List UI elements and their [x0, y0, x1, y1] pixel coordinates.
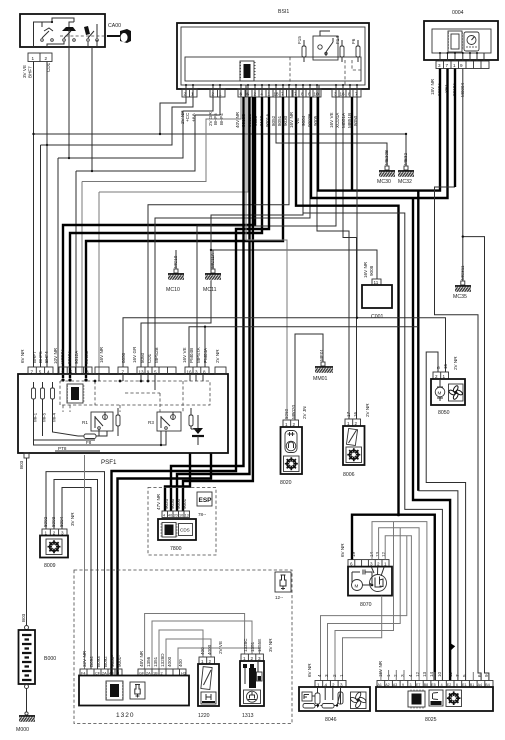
1313 spark icon — [244, 690, 261, 704]
1220 sensor icon — [201, 667, 212, 690]
wire PSF1 pins 16 and 8 feed — [189, 326, 418, 368]
svg-text:8: 8 — [348, 92, 351, 97]
svg-text:7: 7 — [446, 63, 449, 68]
svg-text:3V NR: 3V NR — [70, 512, 75, 526]
svg-text:2: 2 — [45, 56, 48, 61]
wire B03 battery positive — [26, 458, 28, 625]
wire 8045 loop 2 — [328, 528, 401, 681]
ECU 7800 dashed enclosure — [148, 488, 216, 556]
wire BHF4 switch branch — [76, 47, 220, 374]
BSI1 fuse F6 — [351, 38, 360, 62]
svg-text:9012A: 9012A — [74, 350, 79, 364]
PSF1 component right fuse — [189, 408, 193, 429]
PSF1 connector strip group 16V GR — [132, 346, 176, 375]
svg-text:9001: 9001 — [182, 498, 187, 509]
PSF1 connector cell 2V — [215, 349, 226, 375]
wire MC10 stem — [175, 250, 177, 269]
svg-text:1351: 1351 — [153, 656, 158, 667]
7800 ESP logo — [197, 492, 212, 506]
8025 IC icon — [408, 690, 425, 709]
svg-text:2V NR: 2V NR — [215, 349, 220, 363]
svg-text:6: 6 — [308, 92, 311, 97]
svg-text:8025: 8025 — [425, 717, 437, 723]
wire MC35 branch from 0004 — [462, 69, 489, 681]
svg-text:400: 400 — [200, 647, 205, 655]
svg-text:1313: 1313 — [242, 713, 254, 719]
7800 connector — [156, 493, 190, 517]
motor unit 8070 — [340, 543, 392, 608]
PSF1 internal wires — [34, 374, 204, 446]
PSF1 relay R3 — [148, 412, 181, 431]
BSI1 internal IC — [239, 61, 255, 81]
svg-text:B03: B03 — [21, 613, 26, 622]
AC control unit 8025 — [376, 660, 493, 723]
svg-text:5: 5 — [154, 370, 157, 375]
wire thick PSF1 out to 1320 — [118, 453, 212, 675]
svg-text:2: 2 — [332, 674, 337, 677]
svg-text:8: 8 — [240, 92, 243, 97]
1220 gearbox icon — [201, 692, 216, 704]
svg-text:13: 13 — [139, 370, 145, 375]
svg-text:8: 8 — [301, 92, 304, 97]
svg-text:M: M — [355, 584, 359, 589]
wire MR5C thick BSI1 to PSF1 — [84, 97, 283, 382]
svg-text:8070: 8070 — [360, 602, 372, 608]
svg-text:CDS: CDS — [180, 528, 190, 533]
svg-text:BHF4: BHF4 — [44, 351, 49, 363]
wire 9013A thick BSI1 to PSF1 — [61, 97, 255, 382]
wire thick 7800 feed 4 — [183, 97, 253, 511]
8006 sensor icon — [346, 428, 357, 445]
ground MC11 — [203, 252, 223, 293]
wire CD1 link BSI to PSF1 pin9 — [148, 97, 289, 367]
svg-text:8009: 8009 — [44, 563, 56, 569]
svg-text:4: 4 — [408, 674, 413, 677]
svg-text:9: 9 — [460, 63, 463, 68]
wire 32V NR to 1320 — [84, 455, 86, 669]
svg-text:48V NR: 48V NR — [139, 650, 144, 667]
wire 8020 pin2 to MM01 — [295, 334, 323, 420]
label 3V VE BHF7 — [22, 65, 33, 78]
wire 8009 pin3 to 1320 — [62, 488, 91, 670]
svg-text:3: 3 — [195, 370, 198, 375]
PSF1 PT8 tag — [55, 446, 100, 451]
wire 8070 pin12 to 8025 — [385, 536, 411, 681]
wire thick trunk C from 0004 — [311, 69, 448, 199]
svg-text:32V NR: 32V NR — [82, 650, 87, 667]
svg-text:R1: R1 — [82, 420, 88, 425]
BSI1 relay — [313, 31, 338, 60]
8070 capacitor — [352, 570, 372, 584]
bulb unit 8020 — [280, 405, 307, 486]
svg-text:40: 40 — [168, 514, 172, 518]
wire BHF7 switch branch — [58, 47, 213, 374]
svg-text:F14: F14 — [335, 36, 340, 44]
ground MC35 — [453, 265, 473, 300]
svg-text:ESP: ESP — [199, 497, 213, 504]
svg-text:4: 4 — [163, 514, 165, 518]
resistor unit 8006 — [343, 403, 370, 478]
svg-text:16: 16 — [353, 411, 358, 417]
svg-text:13: 13 — [185, 514, 189, 518]
wire thick trunk A 9004 — [296, 97, 399, 515]
ignition switch CA00 — [20, 14, 121, 47]
svg-text:1: 1 — [453, 63, 456, 68]
PSF1 fuse MF5 — [41, 382, 47, 422]
PSF1 B03 stud — [19, 453, 29, 469]
svg-text:4: 4 — [47, 370, 50, 375]
svg-text:2V JN: 2V JN — [302, 406, 307, 419]
1320 injector icon — [130, 682, 145, 699]
8045 display icon — [302, 692, 315, 701]
PSF1 internal IC — [67, 384, 85, 403]
svg-text:16: 16 — [187, 370, 193, 375]
BSI1 pin dots — [185, 84, 358, 86]
PSF1 connector strip group 16V VE — [182, 346, 209, 374]
8045 fan icon — [350, 691, 367, 708]
svg-text:4000: 4000 — [167, 656, 172, 667]
PSF1 connector cell 16V — [95, 346, 109, 374]
svg-text:16V GR: 16V GR — [132, 346, 137, 363]
fan unit 8050 — [431, 356, 465, 416]
8050 motor icon — [435, 379, 445, 401]
wire 8045 loop 1 — [321, 536, 407, 681]
8020 bulb icon — [285, 431, 297, 453]
PSF1 internal ground — [192, 415, 204, 436]
svg-text:MPS2B: MPS2B — [154, 347, 159, 363]
svg-text:MC10: MC10 — [166, 287, 180, 293]
injector icon 12 — [275, 572, 291, 600]
svg-text:BHF7: BHF7 — [28, 66, 33, 78]
svg-text:78--: 78-- — [198, 512, 207, 517]
wire 8045 loop 4 — [343, 596, 382, 681]
wire MC11 stem — [212, 250, 214, 269]
svg-text:6: 6 — [477, 674, 482, 677]
svg-text:40V NR: 40V NR — [235, 111, 240, 128]
wire gray trunk B — [303, 213, 442, 681]
wire 8009 pin1 to 1320 — [46, 472, 105, 669]
svg-text:7800: 7800 — [170, 546, 182, 552]
svg-text:16V VE: 16V VE — [329, 112, 334, 128]
svg-text:12--: 12-- — [275, 595, 284, 600]
wire 1313 pin1 link — [145, 614, 245, 670]
svg-text:R3: R3 — [148, 420, 154, 425]
wire F6 feed to bundle — [351, 97, 353, 191]
PSF1 internal bus dashed — [60, 381, 210, 412]
svg-text:8052: 8052 — [271, 115, 276, 126]
ground M000 — [16, 712, 36, 733]
svg-text:+CC: +CC — [185, 112, 190, 122]
svg-text:6V NR: 6V NR — [340, 543, 345, 557]
svg-text:5: 5 — [70, 370, 73, 375]
8020 gear icon — [284, 456, 300, 472]
CA00 connector pins 1 2 — [28, 53, 52, 62]
wire 8006 pin1 supply — [317, 97, 349, 419]
7800 CDS module — [158, 519, 196, 540]
svg-text:9013A: 9013A — [67, 350, 72, 364]
svg-text:3: 3 — [324, 674, 329, 677]
svg-text:F8: F8 — [86, 440, 92, 445]
wire CD1 CA00 pin2 down — [46, 62, 48, 368]
CA00 internal switch S2 — [62, 22, 76, 41]
wire +CC rail CA00 to PSF1 with MC32 branch — [32, 62, 406, 368]
wire thick 7800 feed 2 — [171, 97, 244, 511]
svg-text:B092: B092 — [103, 656, 108, 667]
svg-text:BSI1: BSI1 — [278, 9, 289, 15]
svg-text:14: 14 — [429, 671, 434, 677]
svg-text:8: 8 — [86, 370, 89, 375]
svg-text:7: 7 — [122, 370, 125, 375]
svg-text:7: 7 — [294, 92, 297, 97]
svg-text:9001-: 9001- — [117, 655, 122, 667]
svg-text:13: 13 — [375, 551, 380, 557]
svg-text:7: 7 — [355, 92, 358, 97]
svg-text:8: 8 — [203, 370, 206, 375]
svg-text:BHF5: BHF5 — [38, 351, 43, 363]
svg-text:2V VE: 2V VE — [218, 641, 223, 654]
svg-text:4: 4 — [317, 674, 322, 677]
svg-text:6: 6 — [247, 92, 250, 97]
svg-text:PSF1: PSF1 — [101, 459, 117, 466]
PSF1 fuse MF1 — [32, 382, 38, 422]
wire 8070 pin14 to 8025 — [372, 522, 427, 681]
PSF1 relay R1 — [82, 412, 113, 431]
svg-text:MM01: MM01 — [313, 376, 328, 382]
svg-text:12: 12 — [415, 671, 420, 677]
svg-text:M000: M000 — [16, 727, 29, 733]
svg-text:8046: 8046 — [325, 717, 337, 723]
8070 throttle icon — [370, 567, 387, 592]
svg-text:4000: 4000 — [207, 644, 212, 655]
svg-text:MC10: MC10 — [173, 255, 178, 268]
svg-text:5: 5 — [436, 366, 441, 369]
svg-text:8050: 8050 — [438, 410, 450, 416]
preheat unit 8045 — [299, 663, 370, 723]
svg-text:MPS7A: MPS7A — [196, 346, 201, 363]
CA00 internal switch S1 — [41, 22, 54, 41]
wire 1220 pin1 link — [159, 630, 203, 669]
wire 0004 aux feed — [454, 69, 456, 188]
svg-text:1: 1 — [191, 92, 194, 97]
1320 IC icon — [106, 681, 124, 700]
PSF1 connector strip group 10V NR — [53, 347, 92, 374]
svg-text:0004: 0004 — [452, 10, 464, 16]
BSI1 connector group 2V NR — [180, 89, 197, 124]
svg-text:7: 7 — [281, 92, 284, 97]
svg-text:10: 10 — [314, 92, 320, 97]
svg-text:ME32: ME32 — [403, 153, 408, 165]
svg-text:ME01: ME01 — [319, 349, 324, 361]
svg-text:2V NR: 2V NR — [453, 356, 458, 370]
svg-text:MC35: MC35 — [453, 294, 467, 300]
wire 1313 pin3 link — [178, 648, 259, 669]
wire 8006 pin2 supply — [343, 97, 357, 419]
svg-text:3: 3 — [334, 92, 337, 97]
ground MC30 — [377, 150, 397, 185]
0004 connector — [430, 52, 489, 97]
svg-text:B03: B03 — [19, 460, 24, 469]
0004 display icon — [448, 31, 463, 52]
svg-text:6V NR: 6V NR — [20, 349, 25, 363]
wire gray stair 2 — [99, 97, 248, 374]
svg-text:18V NR: 18V NR — [430, 78, 435, 95]
8025 display icon — [429, 690, 443, 706]
svg-text:1220: 1220 — [198, 713, 210, 719]
svg-text:7: 7 — [31, 370, 34, 375]
wire gray stair 1 — [82, 97, 241, 374]
svg-text:16V VE: 16V VE — [182, 347, 187, 363]
svg-text:1351: 1351 — [250, 641, 255, 652]
svg-text:400: 400 — [178, 659, 183, 667]
svg-text:3: 3 — [438, 63, 441, 68]
wire battery negative — [26, 689, 28, 713]
switch unit 8009 — [40, 512, 75, 569]
svg-text:9008: 9008 — [369, 265, 374, 276]
BSI unit BSI1 — [177, 9, 369, 89]
svg-text:1328C: 1328C — [243, 638, 248, 652]
PSF1 connector cell 8050 — [118, 352, 128, 374]
wire 8070 pin13 to 8025 — [379, 528, 420, 681]
svg-text:MR5C: MR5C — [84, 350, 89, 364]
ground MM01 — [313, 349, 335, 382]
svg-text:8060: 8060 — [140, 352, 145, 363]
svg-text:8020: 8020 — [280, 480, 292, 486]
PSF1 fuse MF4 — [51, 382, 57, 422]
svg-text:8006: 8006 — [343, 472, 355, 478]
wire 16V link to PSF1 pin13 — [141, 97, 303, 367]
svg-text:15: 15 — [443, 363, 448, 369]
battery B000 — [19, 613, 57, 688]
svg-text:2: 2 — [393, 674, 398, 677]
svg-text:47V NR: 47V NR — [156, 493, 161, 510]
svg-text:13: 13 — [422, 671, 427, 677]
8006 gear icon — [346, 447, 362, 463]
svg-text:9: 9 — [147, 370, 150, 375]
BSI1 connector group 16V VE — [329, 89, 361, 128]
instrument cluster 0004 — [424, 10, 498, 60]
CA00 internal switch S3 — [84, 24, 98, 41]
wire C001 supply — [210, 249, 377, 279]
8050 fan icon — [448, 384, 463, 401]
svg-text:5: 5 — [462, 674, 467, 677]
8045 resistors — [303, 687, 343, 708]
wire MC32 ground link — [405, 133, 407, 166]
wire arrow marker on thick feed — [450, 643, 455, 651]
svg-text:MC32: MC32 — [398, 179, 412, 185]
svg-text:2: 2 — [184, 92, 187, 97]
svg-text:9: 9 — [484, 674, 489, 677]
svg-text:MC30: MC30 — [377, 179, 391, 185]
wire 8050 net PSF1 to fan unit — [123, 97, 446, 372]
svg-text:16V NR: 16V NR — [363, 261, 368, 278]
svg-text:2: 2 — [254, 92, 257, 97]
BSI1 connector group 40V NR — [235, 89, 293, 128]
CA00 key symbol — [107, 29, 131, 43]
svg-text:1: 1 — [339, 674, 344, 677]
svg-text:9: 9 — [62, 370, 65, 375]
svg-text:4: 4 — [261, 92, 264, 97]
svg-text:1: 1 — [268, 92, 271, 97]
8070 motor M — [352, 578, 374, 591]
PSF1 fuse F8 — [78, 434, 102, 445]
svg-text:16V NR: 16V NR — [99, 346, 104, 363]
svg-text:17: 17 — [346, 411, 351, 417]
wire thick 7800 feed 1 — [112, 97, 270, 675]
wire thick trunk D from 0004 — [318, 69, 440, 191]
svg-text:CA00: CA00 — [108, 23, 121, 29]
svg-text:MC11: MC11 — [203, 287, 217, 293]
svg-text:10V NR: 10V NR — [53, 347, 58, 364]
svg-text:9020: 9020 — [164, 498, 169, 509]
BSI1 pin stubs — [186, 85, 357, 97]
svg-text:B093: B093 — [96, 656, 101, 667]
svg-text:9000: 9000 — [176, 498, 181, 509]
wire 1313 pin2 link — [152, 621, 252, 669]
svg-text:C001: C001 — [371, 314, 384, 320]
PSF1 connector strip group 6V NR — [20, 349, 53, 375]
wire thick 7800 feed 3 — [177, 97, 250, 511]
0004 gauge icon — [464, 32, 479, 51]
wire 8050 return loop — [426, 352, 465, 681]
svg-text:M: M — [438, 391, 442, 396]
speed sensor 1220 — [198, 641, 223, 719]
wire link to PSF1 pin5b — [155, 97, 310, 367]
svg-text:9030-: 9030- — [110, 655, 115, 667]
svg-text:PM04B: PM04B — [189, 348, 194, 363]
svg-text:3V VE: 3V VE — [22, 65, 27, 78]
BSI1 fuse F14 — [335, 36, 344, 62]
svg-text:B000: B000 — [44, 656, 56, 662]
wire 8009 pin2 to 1320 — [54, 480, 98, 670]
PSF1 component mid fuse — [116, 408, 120, 433]
BSI1 internal dashed links — [290, 57, 361, 85]
big dashed enclosure 12 — [74, 570, 292, 724]
wire 8045 loop 3 — [335, 522, 394, 681]
svg-text:F15: F15 — [297, 36, 302, 44]
wire thick PSF1 out to 7800 — [165, 453, 190, 511]
BSI1 connector group 16V NR — [289, 89, 321, 128]
BSI1 connector group 2V GR — [208, 89, 225, 126]
svg-text:10: 10 — [437, 671, 442, 677]
wire PM04B link — [197, 97, 336, 367]
wire 8020 pin1 supply — [246, 97, 287, 420]
8025 snowflake icon — [446, 690, 462, 707]
svg-text:CD1: CD1 — [147, 353, 152, 363]
svg-text:9030: 9030 — [170, 498, 175, 509]
wire 9012A thick BSI1 to PSF1 — [68, 97, 262, 382]
svg-text:ME30B: ME30B — [384, 150, 389, 165]
svg-text:16: 16 — [340, 92, 346, 97]
ground MC32 — [396, 153, 416, 185]
coil unit 1313 — [240, 638, 273, 719]
engine ECU 1320 — [79, 669, 189, 719]
svg-text:1: 1 — [219, 92, 222, 97]
svg-text:19: 19 — [351, 551, 356, 557]
svg-text:PT8: PT8 — [58, 446, 67, 451]
svg-text:F6: F6 — [351, 38, 356, 44]
8009 gear icon — [46, 539, 62, 555]
svg-text:8051: 8051 — [277, 115, 282, 126]
8025 pin stubs — [381, 670, 473, 681]
svg-text:11: 11 — [448, 672, 453, 677]
svg-text:B094: B094 — [89, 656, 94, 667]
svg-text:1356: 1356 — [146, 656, 151, 667]
svg-text:MC311: MC311 — [460, 265, 465, 280]
ground MC10 — [166, 255, 186, 293]
fuse box PSF1 — [18, 374, 228, 466]
wire 1220 pin2 link — [166, 639, 211, 669]
svg-text:20: 20 — [174, 514, 178, 518]
